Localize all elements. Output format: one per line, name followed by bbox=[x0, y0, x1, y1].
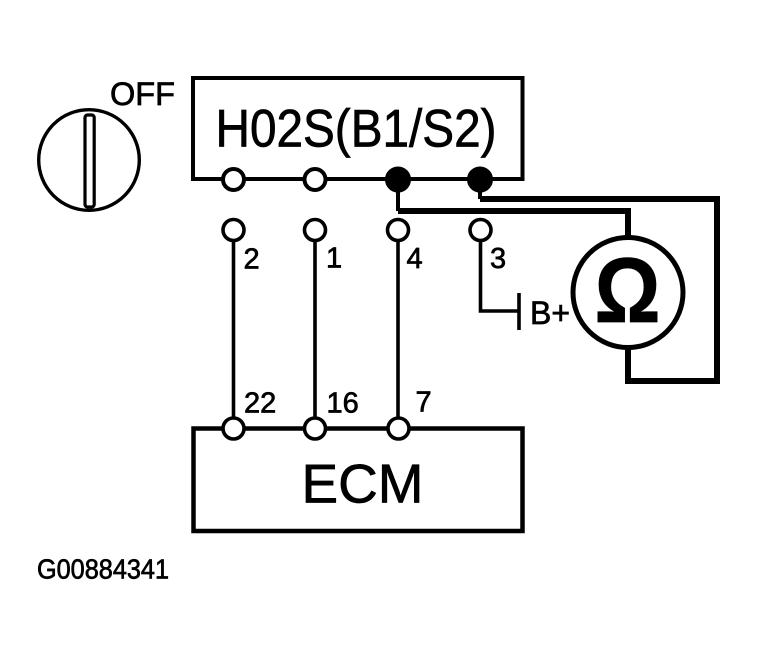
svg-text:B+: B+ bbox=[530, 295, 570, 331]
connector terminal (sensor side) open circle A bbox=[223, 169, 244, 190]
ohmmeter M1 bbox=[573, 238, 683, 348]
wire: stub from sensor pin 3 terminal down bbox=[478, 188, 482, 199]
svg-text:3: 3 bbox=[490, 243, 506, 275]
svg-text:2: 2 bbox=[244, 244, 260, 276]
wire: thick lead from pin-4 terminal to ohmmeter top bbox=[398, 211, 628, 240]
svg-text:ECM: ECM bbox=[302, 453, 424, 515]
connector terminal (sensor side) open circle B bbox=[305, 169, 326, 190]
wire pin1 to ECM 16 bbox=[313, 241, 317, 418]
svg-text:H02S(B1/S2): H02S(B1/S2) bbox=[216, 100, 497, 159]
component box H02S(B1/S2) bbox=[193, 78, 523, 179]
harness pin 4 terminal bbox=[388, 220, 409, 241]
ECM pin 7 terminal bbox=[388, 418, 409, 439]
svg-text:G00884341: G00884341 bbox=[37, 554, 169, 585]
harness pin 3 terminal bbox=[470, 220, 491, 241]
battery positive terminal bar bbox=[517, 293, 521, 330]
svg-text:OFF: OFF bbox=[110, 76, 175, 112]
svg-text:Ω: Ω bbox=[595, 240, 661, 342]
svg-text:1: 1 bbox=[326, 243, 342, 275]
harness pin 1 terminal bbox=[305, 220, 326, 241]
wire pin4 to ECM 7 bbox=[396, 241, 400, 418]
svg-text:22: 22 bbox=[244, 388, 276, 420]
svg-text:4: 4 bbox=[407, 243, 423, 275]
ECM pin 22 terminal bbox=[223, 418, 244, 439]
ECM pin 16 terminal bbox=[305, 418, 326, 439]
ECM box bbox=[194, 429, 523, 532]
ignition key switch SW1 (OFF) bbox=[39, 110, 140, 211]
connector terminal (sensor side) filled circle C bbox=[386, 167, 411, 192]
wire pin3 to B+ bbox=[481, 241, 520, 311]
wire: stub from sensor pin 4 terminal down bbox=[396, 188, 400, 211]
harness pin 2 terminal bbox=[223, 220, 244, 241]
svg-text:7: 7 bbox=[416, 387, 432, 419]
connector terminal (sensor side) filled circle D bbox=[468, 167, 493, 192]
wire: thick lead loop from pin-3 terminal around to ohmmeter bottom bbox=[480, 199, 717, 381]
svg-text:16: 16 bbox=[327, 388, 359, 420]
wire pin2 to ECM 22 bbox=[232, 241, 236, 418]
